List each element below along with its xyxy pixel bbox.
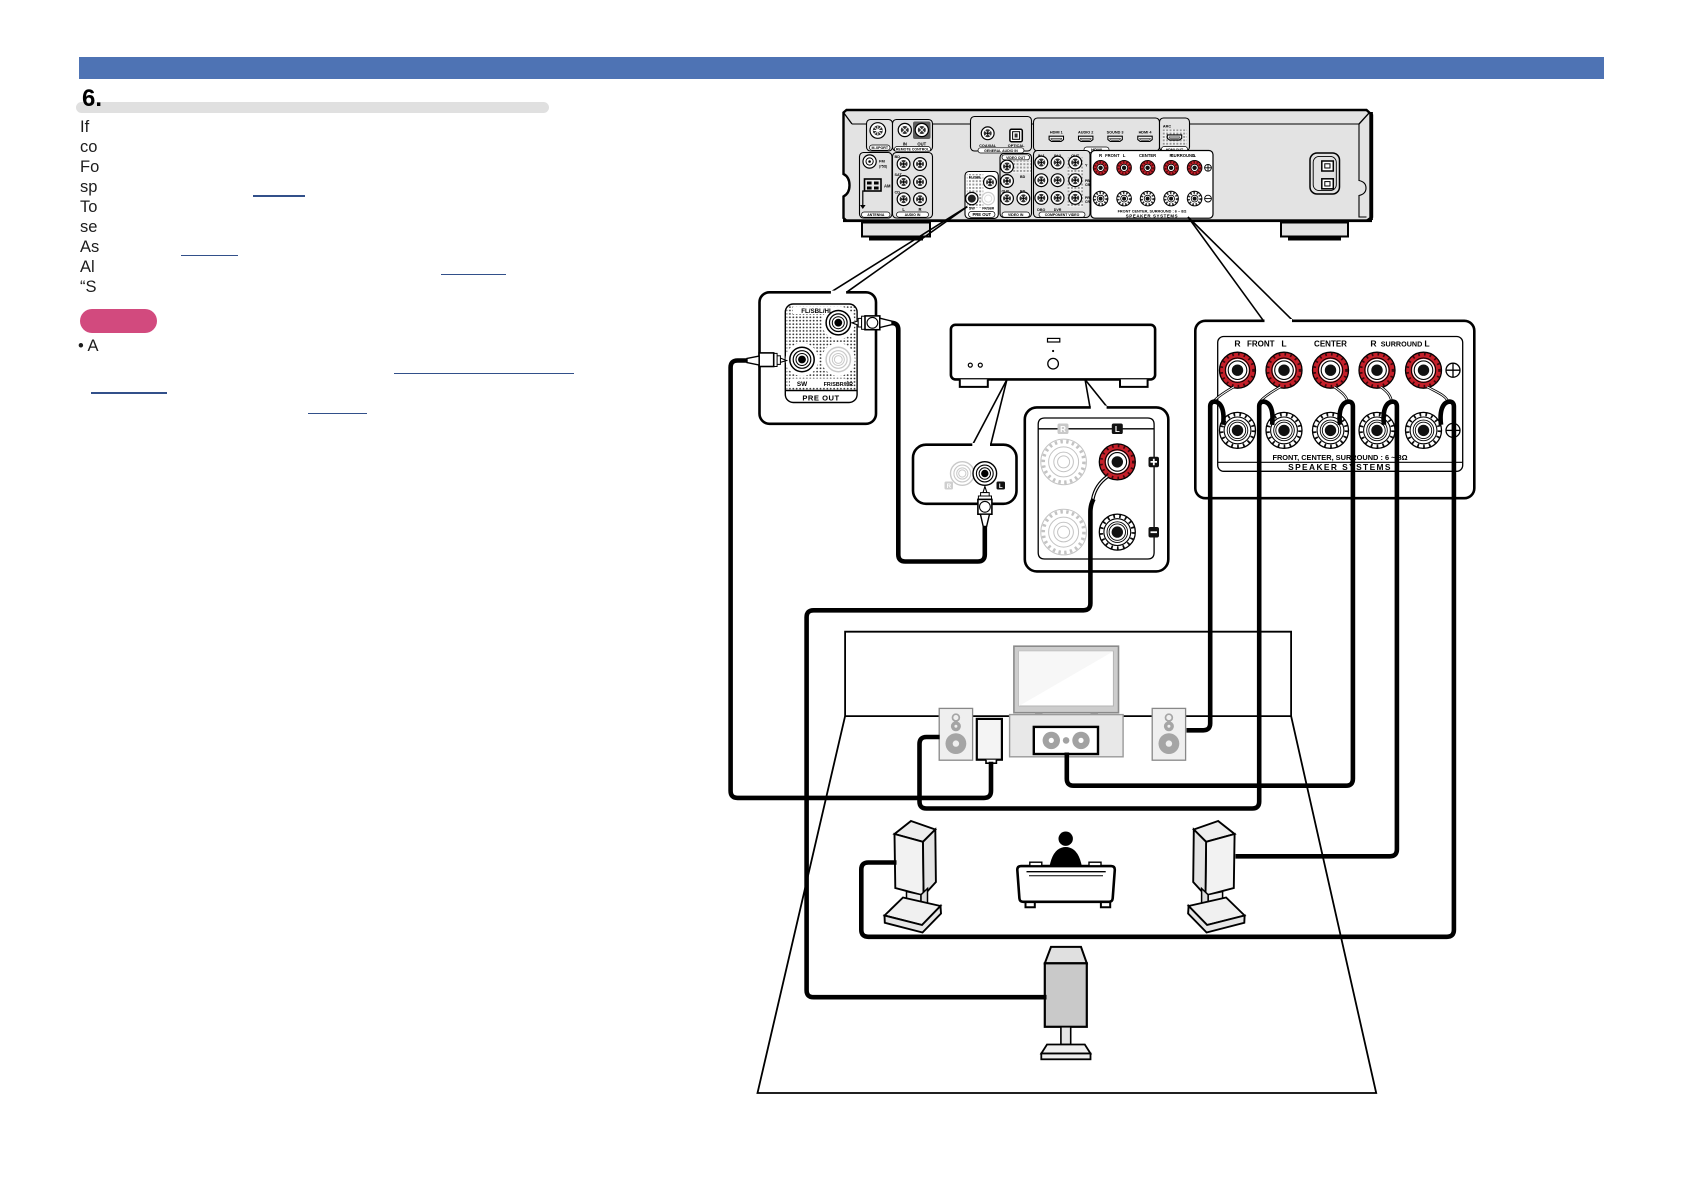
svg-text:CENTER: CENTER [1314, 340, 1347, 349]
left body text (clipped letters) [80, 117, 99, 297]
AV receiver rear panel [843, 110, 1373, 241]
video out / video in column [1000, 154, 1032, 218]
PRE OUT detail box [747, 291, 892, 424]
svg-text:GENERAL AUDIO IN: GENERAL AUDIO IN [984, 149, 1018, 153]
passive subwoofer (bottom) [1041, 947, 1090, 1059]
svg-text:L: L [1424, 339, 1429, 349]
front left speaker [939, 708, 972, 760]
svg-text:L: L [999, 483, 1003, 490]
svg-text:R: R [947, 483, 952, 490]
speaker systems section on receiver [1091, 151, 1213, 219]
svg-text:AUDIO IN: AUDIO IN [905, 213, 921, 217]
svg-text:L: L [1123, 153, 1126, 158]
wedge to subwoofer detail box [1085, 380, 1090, 408]
svg-text:R: R [918, 207, 921, 212]
speaker cable 5: surround L [861, 402, 1454, 937]
link underlines [253, 195, 305, 197]
SW RCA plug (from left) [747, 353, 787, 367]
svg-text:CR: CR [1085, 200, 1090, 204]
svg-text:CENTER: CENTER [1139, 153, 1156, 158]
M-XPort box [867, 120, 893, 152]
svg-text:(75Ω): (75Ω) [879, 165, 887, 169]
svg-text:SURROUND: SURROUND [1171, 153, 1195, 158]
surround right speaker [1188, 821, 1245, 933]
svg-text:FM: FM [879, 159, 885, 164]
svg-text:M-XPORT: M-XPORT [872, 146, 889, 150]
FL RCA plug (from right) [852, 316, 892, 330]
TV [1014, 646, 1119, 715]
svg-text:SPEAKER SYSTEMS: SPEAKER SYSTEMS [1288, 462, 1392, 472]
svg-text:CB: CB [1085, 183, 1090, 187]
svg-text:IN: IN [903, 142, 907, 147]
wire from red post to cable [1093, 477, 1108, 500]
speaker cable 2: front L [920, 402, 1273, 809]
svg-text:ARC: ARC [1163, 125, 1171, 129]
NOTE pill [80, 309, 157, 333]
svg-text:FL/SBL: FL/SBL [969, 176, 982, 180]
svg-text:PRE OUT: PRE OUT [802, 393, 839, 402]
general audio in (coaxial/optical) box [971, 117, 1032, 152]
svg-text:L: L [1281, 339, 1286, 349]
AC power inlet [1310, 153, 1340, 194]
svg-text:L: L [1193, 153, 1196, 158]
speaker cable 1: front R [1187, 402, 1224, 731]
center speaker [1034, 727, 1098, 754]
svg-text:R: R [1370, 339, 1377, 349]
svg-text:HDMI 1: HDMI 1 [1050, 131, 1063, 135]
section heading gray bar [76, 102, 549, 114]
svg-text:ANTENNA: ANTENNA [867, 213, 885, 217]
bullet A [78, 337, 98, 356]
svg-text:BD: BD [895, 155, 901, 159]
antenna box [860, 153, 893, 219]
cable amp output to passive sub [807, 499, 1094, 997]
svg-text:OUT: OUT [917, 142, 926, 147]
svg-text:SOUND 3: SOUND 3 [1107, 131, 1124, 135]
feet [862, 223, 930, 237]
svg-text:R: R [1234, 339, 1241, 349]
room layout [758, 632, 1377, 1093]
TV cabinet [1010, 715, 1124, 757]
svg-text:DVR: DVR [1054, 208, 1062, 212]
svg-text:FR/SBR/HR: FR/SBR/HR [824, 382, 853, 388]
svg-text:VIDEO IN: VIDEO IN [1008, 213, 1024, 217]
svg-text:FRONT: FRONT [1247, 340, 1275, 349]
svg-text:L: L [902, 207, 905, 212]
wedge to input detail box [972, 380, 1007, 446]
svg-text:FRONT: FRONT [1105, 153, 1120, 158]
L jack [973, 462, 1005, 490]
svg-text:HDMI 4: HDMI 4 [1139, 131, 1153, 135]
svg-text:REMOTE CONTROL: REMOTE CONTROL [896, 148, 930, 152]
svg-text:DBO: DBO [1037, 208, 1045, 212]
svg-text:SPEAKER SYSTEMS: SPEAKER SYSTEMS [1126, 213, 1178, 218]
svg-text:OPTICAL: OPTICAL [1008, 144, 1025, 148]
HDMI box [1034, 118, 1160, 151]
callout wedge receiver to speaker panel [1188, 217, 1293, 321]
subwoofer detail box [1025, 406, 1169, 572]
speaker cable 4: surround R [1236, 402, 1397, 857]
component video box [1034, 151, 1091, 218]
RCA plug from below [978, 486, 992, 526]
svg-text:AUDIO 2: AUDIO 2 [1078, 131, 1093, 135]
svg-text:SURROUND: SURROUND [1381, 340, 1423, 349]
svg-text:VIDEO OUT: VIDEO OUT [1006, 156, 1026, 160]
subwoofer (room, white) [977, 719, 1002, 763]
svg-text:COMPONENT VIDEO: COMPONENT VIDEO [1045, 213, 1080, 217]
listener [1050, 832, 1082, 867]
svg-text:COAXIAL: COAXIAL [979, 144, 997, 148]
svg-text:AM: AM [884, 184, 891, 189]
amp input detail box [913, 443, 1017, 526]
sofa [1017, 862, 1115, 907]
callout wedge receiver to pre-out detail [831, 207, 968, 293]
heading number [82, 85, 102, 113]
power amplifier [951, 325, 1155, 446]
svg-text:R: R [1060, 425, 1066, 434]
REMOTE CONTROL box [893, 120, 933, 152]
svg-text:FRONT, CENTER, SURROUND : 6 ~: FRONT, CENTER, SURROUND : 6 ~ 8Ω [1272, 453, 1407, 462]
cable SW pre-out to amp... (left long) [731, 361, 991, 798]
svg-text:PRE OUT: PRE OUT [972, 212, 991, 217]
pre out box on receiver [965, 172, 998, 219]
audio in box [893, 153, 933, 219]
svg-text:SW: SW [797, 381, 808, 388]
speaker cable 3: center [1067, 402, 1353, 786]
FR/SBR/HR jack (unused, gray) [826, 347, 850, 371]
thin wire loops red->black [1213, 387, 1448, 403]
SW jack [790, 347, 814, 371]
svg-text:FL/SBL/HL: FL/SBL/HL [801, 308, 833, 315]
svg-text:BD: BD [1020, 175, 1026, 179]
svg-text:L: L [1115, 425, 1120, 434]
cable FL pre-out to amp input [892, 323, 985, 562]
FL/SBL/HL jack [826, 311, 850, 335]
cables [731, 323, 1454, 997]
R jack (gray, unused) [945, 462, 975, 490]
front right speaker [1152, 708, 1185, 760]
svg-text:FR/SBR: FR/SBR [982, 207, 995, 211]
svg-text:SW: SW [969, 207, 976, 211]
surround left speaker [885, 821, 942, 933]
top blue header bar [79, 57, 1604, 79]
speaker systems detail panel [1195, 319, 1474, 498]
HDMI OUT box [1160, 118, 1190, 151]
